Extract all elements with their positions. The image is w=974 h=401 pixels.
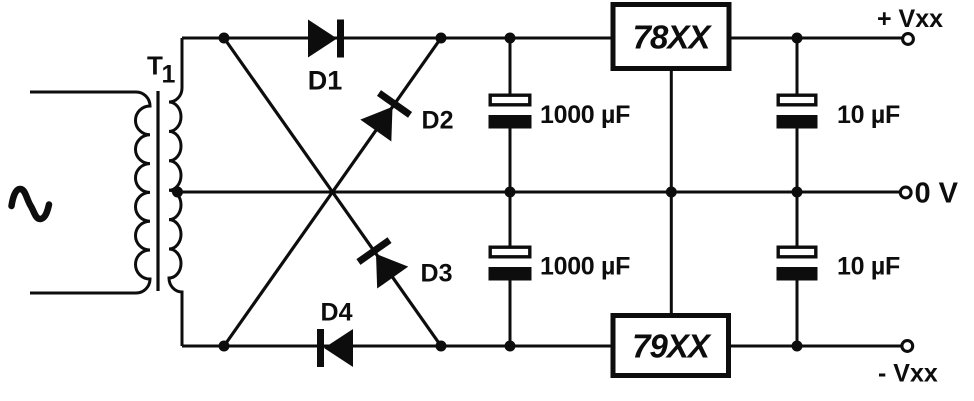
wire top rail <box>182 37 611 40</box>
wire C1 bottom <box>509 129 512 193</box>
node bridge top-right <box>436 33 447 44</box>
wire C2 bottom <box>509 281 512 347</box>
node bottom rail C2 junction <box>505 341 516 352</box>
svg-text:0 V: 0 V <box>915 178 959 210</box>
svg-text:1000 µF: 1000 µF <box>540 253 630 281</box>
wire bridge diagonal A <box>224 38 441 346</box>
node bridge bottom-left <box>219 341 230 352</box>
transformer T1 core <box>156 91 159 291</box>
node 0V rail C1 junction <box>505 187 516 198</box>
node 0V rail C3 junction <box>792 187 803 198</box>
terminal -Vxx <box>902 341 913 352</box>
wire C3 bottom <box>796 129 799 193</box>
capacitor C1 1000uF <box>489 95 532 128</box>
capacitor C3 10uF <box>777 95 818 128</box>
svg-text:10 µF: 10 µF <box>837 101 900 129</box>
svg-text:+ Vxx: + Vxx <box>877 5 943 33</box>
terminal +Vxx <box>903 34 914 45</box>
node bridge bottom-right <box>436 341 447 352</box>
wire regulator middle vertical <box>670 69 673 315</box>
wire top rail right of 78XX <box>731 37 902 40</box>
wire C1 top <box>509 38 512 94</box>
transformer T1 secondary winding <box>169 38 182 346</box>
wire primary top lead <box>30 91 136 94</box>
svg-text:D2: D2 <box>422 107 454 135</box>
svg-text:D1: D1 <box>308 66 343 96</box>
terminal 0V <box>900 187 911 198</box>
capacitor C4 10uF <box>777 247 818 280</box>
diode D2 <box>360 90 412 141</box>
svg-text:78XX: 78XX <box>633 19 713 56</box>
wire bottom rail right of 79XX <box>730 345 902 348</box>
regulator U1 78XX box <box>613 5 729 69</box>
wire bridge diagonal B <box>224 38 441 346</box>
svg-text:1: 1 <box>162 61 176 89</box>
node bridge top-left <box>219 33 230 44</box>
node top rail C3 junction <box>792 33 803 44</box>
wire C3 top <box>796 38 799 94</box>
node 0V rail regulator junction <box>666 187 677 198</box>
wire C4 bottom <box>796 281 799 347</box>
svg-text:10 µF: 10 µF <box>837 253 900 281</box>
node center tap dot <box>172 187 183 198</box>
svg-text:1000 µF: 1000 µF <box>540 101 630 129</box>
diode D3 <box>356 237 408 288</box>
regulator U2 79XX box <box>613 316 729 376</box>
AC source sine symbol <box>12 189 50 219</box>
wire C4 top <box>796 192 799 246</box>
svg-text:79XX: 79XX <box>632 328 712 365</box>
diode D4 <box>317 329 353 367</box>
svg-text:D3: D3 <box>421 260 453 288</box>
wire C2 top <box>509 192 512 246</box>
node bottom rail C4 junction <box>792 341 803 352</box>
wire bottom rail <box>182 345 612 348</box>
wire primary bottom lead <box>30 292 136 295</box>
capacitor C2 1000uF <box>489 247 532 280</box>
transformer T1 primary winding <box>136 92 151 293</box>
diode D1 <box>308 20 344 58</box>
wire 0V rail <box>177 191 900 194</box>
label T1 <box>147 51 176 89</box>
svg-text:- Vxx: - Vxx <box>878 360 938 388</box>
node top rail C1 junction <box>505 33 516 44</box>
svg-text:D4: D4 <box>321 299 353 327</box>
